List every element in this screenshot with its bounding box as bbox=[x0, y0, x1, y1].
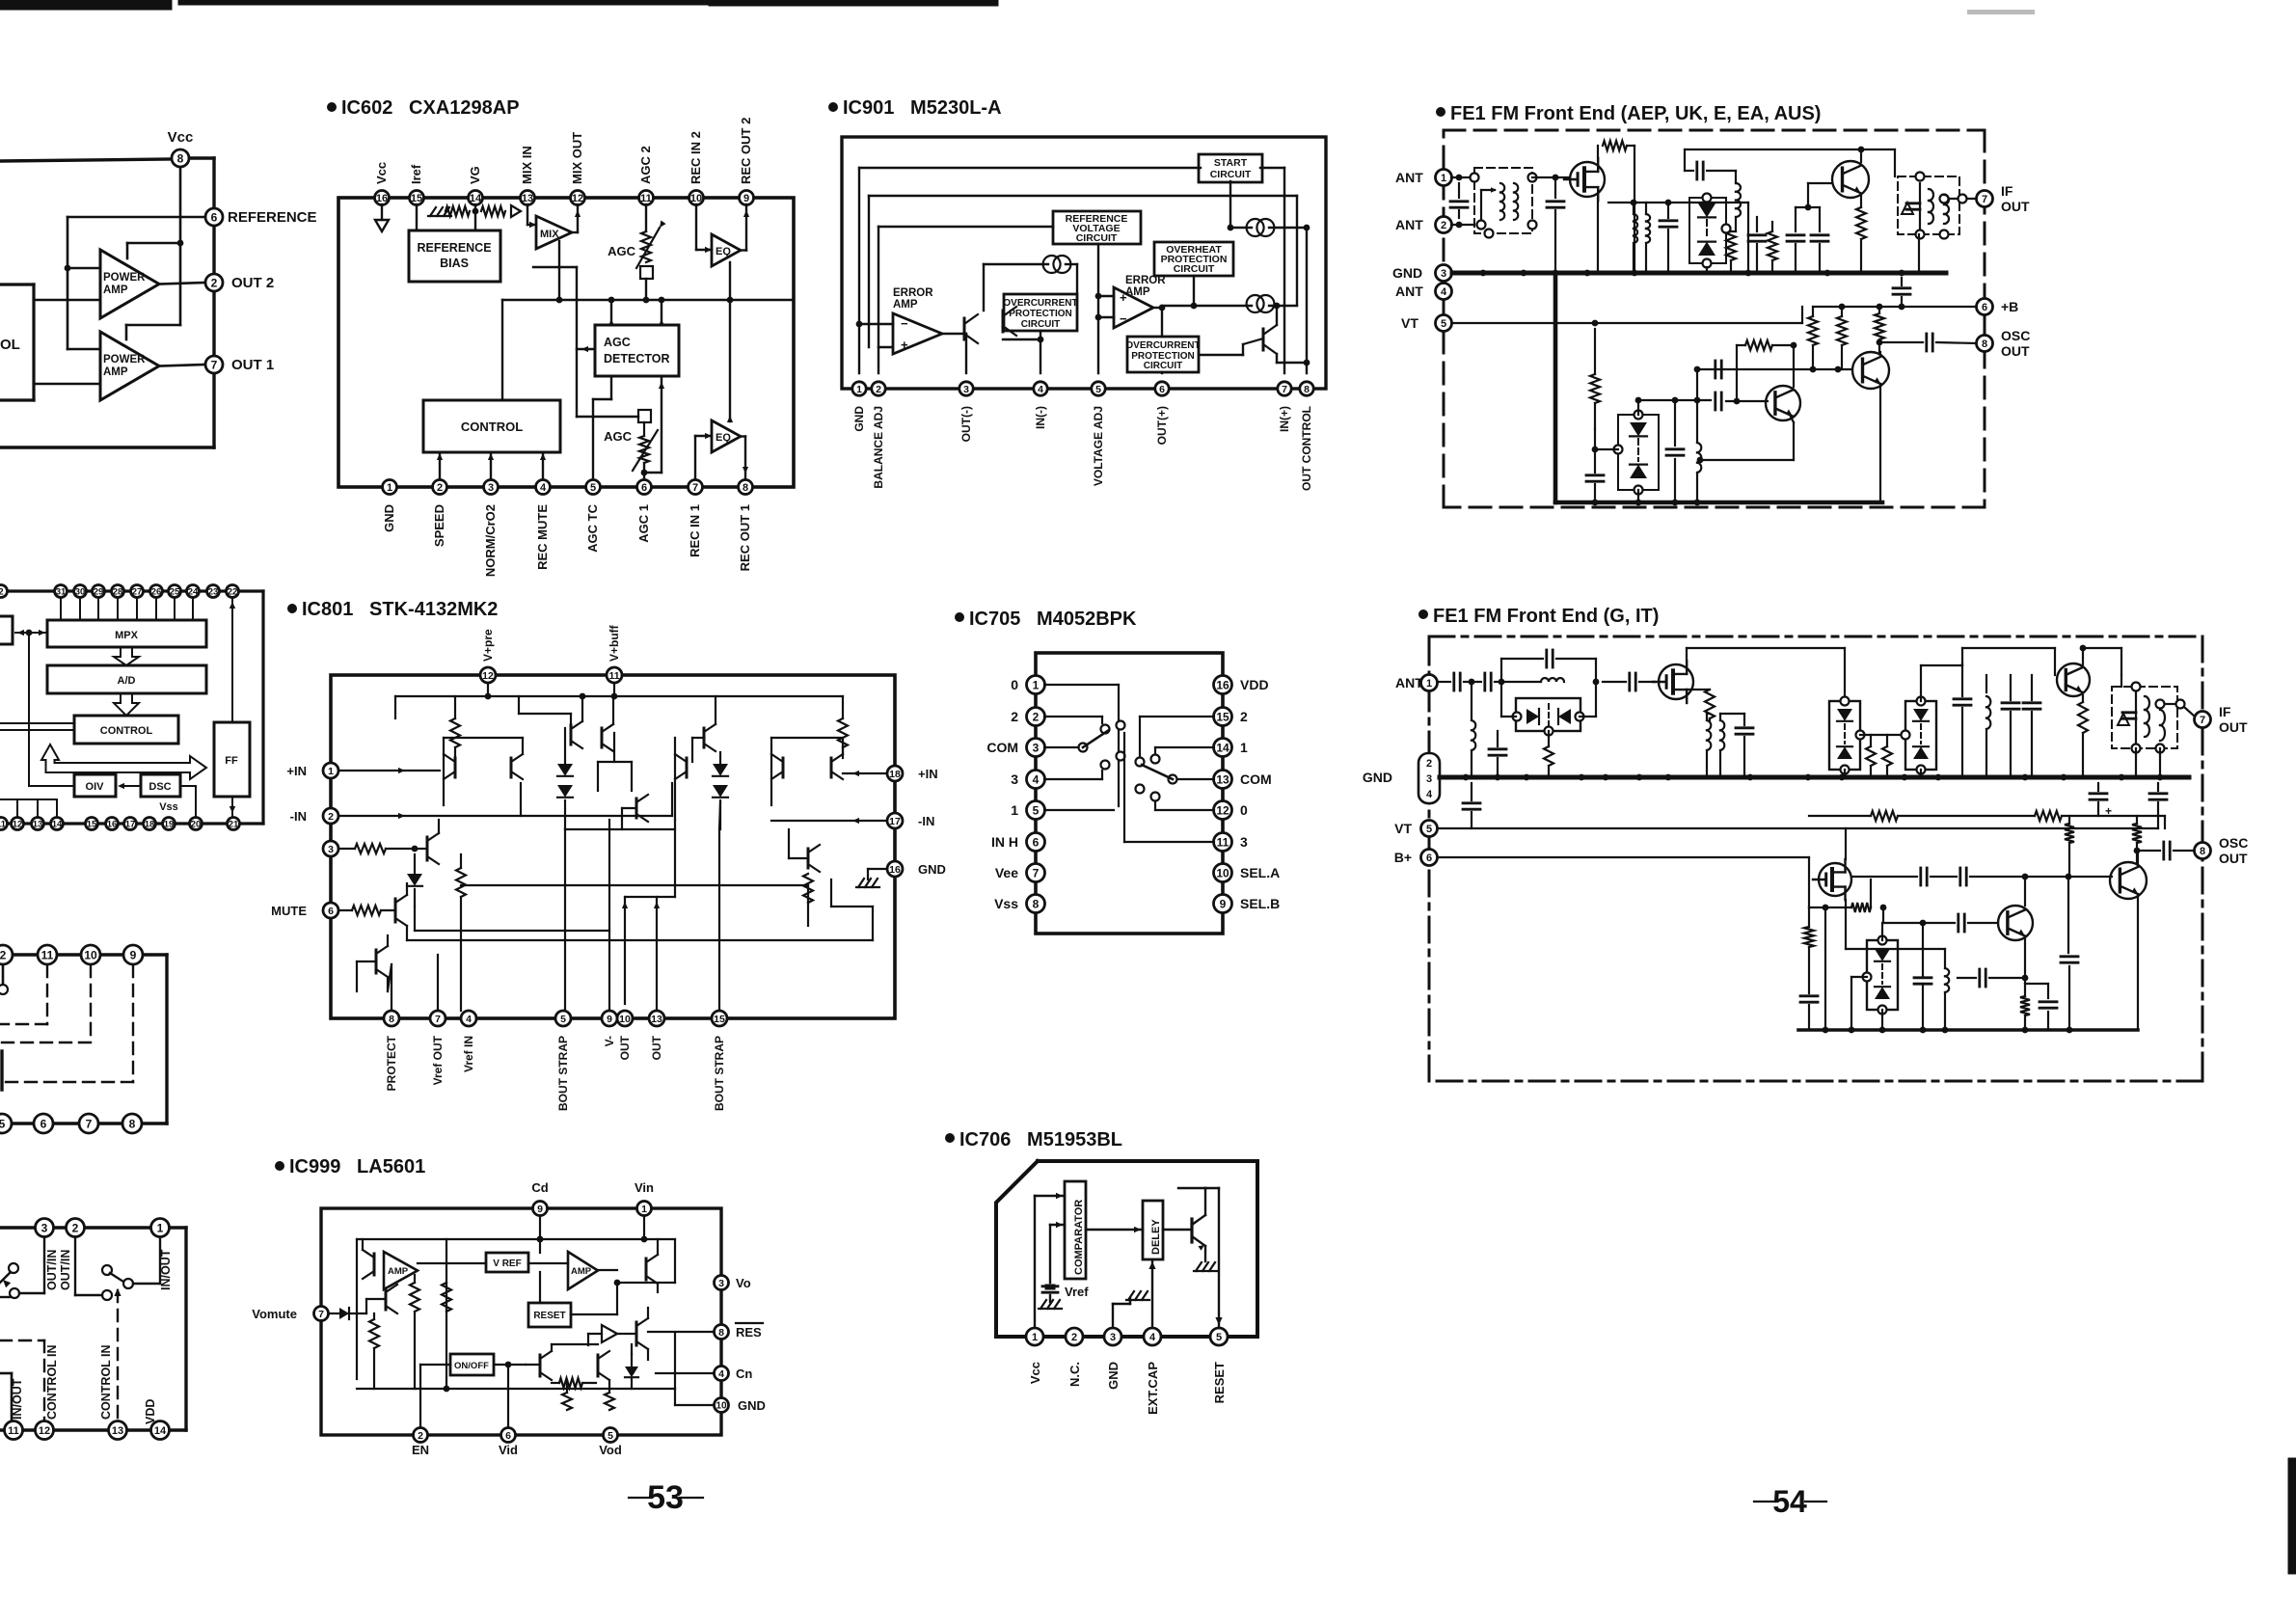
svg-text:SEL.B: SEL.B bbox=[1240, 896, 1280, 911]
IC801 pin 4 Vref IN bbox=[461, 1011, 476, 1072]
svg-text:RESET: RESET bbox=[1212, 1362, 1227, 1403]
svg-text:6: 6 bbox=[41, 1117, 47, 1130]
svg-text:EN: EN bbox=[412, 1443, 429, 1457]
svg-text:OUT: OUT bbox=[2219, 719, 2248, 735]
svg-text:7: 7 bbox=[1982, 194, 1987, 205]
IC801 outline bbox=[331, 675, 895, 1018]
svg-text:ANT: ANT bbox=[1395, 170, 1423, 185]
IC801 mid structure bbox=[598, 696, 716, 829]
IC901 reference voltage circuit block bbox=[1053, 211, 1141, 244]
svg-text:19: 19 bbox=[164, 819, 175, 829]
IC706 comparator block bbox=[1065, 1181, 1086, 1279]
FE1 AEP if transformer internals bbox=[1906, 183, 1949, 230]
IC602 pin 15 Iref bbox=[409, 164, 424, 204]
FE1 AEP antenna transformer coils bbox=[1481, 177, 1518, 220]
svg-text:BOUT STRAP: BOUT STRAP bbox=[556, 1036, 570, 1111]
svg-text:11: 11 bbox=[1217, 835, 1229, 849]
svg-text:10: 10 bbox=[716, 1401, 727, 1412]
svg-text:16: 16 bbox=[889, 864, 901, 876]
FE1 GIT fet drain line bbox=[1687, 648, 1845, 701]
FE1 AEP pin 6 +B bbox=[1977, 299, 2019, 315]
IC901 M5230L-A title bbox=[828, 97, 1002, 119]
svg-text:8: 8 bbox=[129, 1117, 136, 1130]
svg-text:IF: IF bbox=[2001, 183, 2013, 199]
IC901 wire rail2 bbox=[869, 196, 1297, 347]
svg-text:8: 8 bbox=[718, 1327, 724, 1339]
IC602 pin 10 REC IN 2 bbox=[689, 131, 704, 204]
IC901 pin 7 IN(+) bbox=[1278, 382, 1291, 432]
block B wire DSC to OIV bbox=[118, 783, 141, 789]
svg-text:CONTROL IN: CONTROL IN bbox=[45, 1344, 59, 1420]
block B pin 30 bbox=[74, 585, 87, 598]
svg-text:54: 54 bbox=[1772, 1484, 1807, 1519]
svg-text:0: 0 bbox=[1240, 802, 1248, 818]
svg-text:B+: B+ bbox=[1394, 850, 1412, 865]
IC602 wire mix out to pin12 bbox=[572, 204, 581, 232]
svg-text:20: 20 bbox=[191, 819, 202, 829]
svg-text:1: 1 bbox=[1033, 678, 1040, 691]
svg-text:AGC TC: AGC TC bbox=[585, 503, 600, 552]
FE1 GIT cap 4 bbox=[2023, 675, 2040, 777]
svg-text:2: 2 bbox=[0, 586, 4, 597]
power amp 2 bbox=[100, 332, 159, 400]
block B wire left bus bbox=[26, 630, 74, 786]
FE1 GIT left caps to gnd bbox=[1463, 731, 1506, 828]
IC999 pin 4 Cn bbox=[715, 1367, 753, 1382]
IC705 switch right wires bbox=[1119, 717, 1214, 842]
FE1 AEP mid cap1 bbox=[1660, 203, 1677, 273]
IC999 cn wire bbox=[656, 1372, 714, 1374]
FE1 GIT osc coil lower bbox=[1846, 949, 1949, 1030]
svg-text:OUT: OUT bbox=[2219, 851, 2248, 866]
block B pin 23 bbox=[207, 585, 220, 598]
block C dashed wire pin9 bbox=[0, 965, 133, 1082]
block B double arrow left bbox=[15, 630, 47, 636]
IC801 pin 13 OUT bbox=[649, 1011, 664, 1060]
IC901 pin 5 VOLTAGE ADJ bbox=[1092, 382, 1105, 486]
svg-text:POWER: POWER bbox=[103, 272, 146, 284]
FE1 GIT osc out cap bbox=[2137, 842, 2194, 859]
IC999 on/off block bbox=[450, 1354, 494, 1375]
FE1 AEP pin 2 ANT bbox=[1395, 217, 1452, 233]
IC801 left diff pair bbox=[444, 738, 523, 805]
IC801 STK-4132MK2 title bbox=[287, 599, 498, 620]
IC999 pin 2 EN bbox=[412, 1428, 429, 1458]
FE1 GIT cap right of bus bbox=[2136, 748, 2160, 777]
FE1 GIT osc fet feedback resistor bbox=[1809, 880, 1871, 1030]
FE1 GIT fet source resistor bbox=[1687, 690, 1715, 720]
svg-text:12: 12 bbox=[13, 819, 23, 829]
svg-text:1: 1 bbox=[157, 1221, 164, 1234]
block B pin 17 bbox=[124, 818, 137, 830]
FE1 AEP input cap bbox=[1450, 175, 1474, 229]
IC602 wire pin13 to mix bbox=[527, 204, 536, 228]
svg-text:GND: GND bbox=[1106, 1362, 1121, 1390]
IC901 transistor pair left bbox=[964, 307, 1016, 343]
svg-text:29: 29 bbox=[94, 586, 104, 597]
svg-text:9: 9 bbox=[1220, 897, 1227, 910]
svg-text:Vee: Vee bbox=[995, 865, 1018, 880]
IC706 pin 2 NC bbox=[1066, 1328, 1083, 1387]
IC705 outline bbox=[1036, 653, 1223, 934]
block D IN/OUT label pin11 bbox=[11, 1378, 24, 1420]
svg-text:15: 15 bbox=[1216, 710, 1229, 723]
IC801 gnd symbol bbox=[856, 869, 887, 887]
svg-text:IN(-): IN(-) bbox=[1034, 406, 1047, 429]
FE1 GIT varactor box 3 bbox=[1851, 923, 1898, 1030]
FE1 GIT osc t3 base cap bbox=[1958, 969, 2028, 987]
IC801 pin 7 Vref OUT bbox=[430, 1011, 446, 1085]
FE1 AEP cap right pair bbox=[1787, 207, 1828, 273]
IC801 mid top rail bbox=[395, 696, 523, 738]
FE1 GIT series cap to fet bbox=[1603, 673, 1655, 690]
IC602 resistor network at pin 14 bbox=[428, 204, 521, 230]
scan artifact smudge top right bbox=[1967, 10, 2035, 14]
IC901 wire out control pin8 bbox=[1304, 228, 1310, 373]
IC999 mid transistors bbox=[526, 1344, 609, 1388]
svg-text:−: − bbox=[1120, 311, 1127, 326]
IC801 right diff pair bbox=[771, 738, 843, 805]
svg-text:AMP: AMP bbox=[571, 1266, 592, 1277]
svg-text:REC MUTE: REC MUTE bbox=[535, 504, 550, 570]
IC706 wire pin3 gnd bbox=[1113, 1291, 1149, 1329]
svg-text:8: 8 bbox=[1304, 384, 1310, 395]
FE1 GIT mid resistors bbox=[1860, 735, 1905, 777]
svg-text:13: 13 bbox=[112, 1425, 123, 1437]
IC901 wire voltage adj pin5 bbox=[1095, 244, 1114, 373]
block D partial box bottom left bbox=[0, 1373, 12, 1420]
block D pin 2 bbox=[67, 1219, 85, 1237]
svg-text:REFERENCE: REFERENCE bbox=[417, 241, 491, 255]
svg-text:8: 8 bbox=[1033, 897, 1040, 910]
IC602 pin 7 REC IN 1 bbox=[688, 480, 703, 557]
svg-text:4: 4 bbox=[1033, 772, 1040, 786]
block D dashed stub left bbox=[0, 1296, 10, 1298]
svg-text:16: 16 bbox=[1216, 678, 1229, 691]
IC801 pin 3 bbox=[323, 841, 338, 856]
FE1 GIT osc fet bbox=[1813, 828, 1851, 949]
svg-text:11: 11 bbox=[608, 670, 619, 682]
FE1 AEP fet source to gnd bbox=[1597, 198, 1599, 273]
IC602 pin 8 REC OUT 1 bbox=[738, 480, 753, 572]
IC705 pin 4 3 bbox=[1011, 771, 1044, 789]
IC901 wire error amp left inputs bbox=[856, 321, 893, 347]
IC999 pin 6 Vid bbox=[499, 1428, 518, 1458]
svg-text:OIV: OIV bbox=[86, 781, 105, 793]
pin 2 OUT 2 bbox=[205, 274, 274, 291]
IC706 transistor bbox=[1192, 1188, 1205, 1251]
svg-text:6: 6 bbox=[1426, 853, 1432, 864]
FE1 GIT emitter resistor cap bbox=[2020, 984, 2057, 1030]
IC706 transistor emitter gnd bbox=[1194, 1246, 1217, 1271]
FE1 FM Front End (G, IT) title bbox=[1418, 606, 1659, 627]
FE1 GIT bottom bus bbox=[1798, 1027, 2138, 1034]
svg-text:+IN: +IN bbox=[286, 764, 307, 778]
FE1 GIT balun resistor bbox=[1544, 731, 1553, 777]
svg-text:COM: COM bbox=[986, 740, 1018, 755]
svg-text:18: 18 bbox=[889, 769, 901, 780]
IC801 protect transistor bbox=[357, 910, 388, 991]
block C switch contact below pin12 bbox=[0, 965, 8, 994]
svg-text:REC IN 2: REC IN 2 bbox=[689, 131, 703, 184]
IC901 overheat protection circuit block bbox=[1154, 242, 1233, 276]
block B pin 18 bbox=[144, 818, 156, 830]
block B pin 22 bbox=[227, 585, 239, 598]
pin 8 Vcc bbox=[168, 129, 194, 167]
IC999 vomute diode bbox=[329, 1308, 366, 1319]
svg-text:REFERENCE: REFERENCE bbox=[228, 209, 317, 226]
svg-text:CIRCUIT: CIRCUIT bbox=[1021, 319, 1061, 330]
IC901 start circuit block bbox=[1199, 154, 1262, 182]
block B MPX block bbox=[47, 620, 206, 647]
IC705 pin 11 3 bbox=[1214, 833, 1249, 852]
FE1 GIT balun diode box bbox=[1501, 682, 1596, 736]
wire control to amp2 bbox=[34, 383, 100, 386]
wire amp1 output to pin 2 bbox=[159, 283, 205, 284]
svg-text:FF: FF bbox=[225, 755, 238, 767]
svg-text:CONTROL IN: CONTROL IN bbox=[99, 1344, 113, 1420]
svg-text:26: 26 bbox=[151, 586, 162, 597]
FE1 AEP pin 5 VT bbox=[1401, 315, 1452, 332]
svg-text:1: 1 bbox=[1011, 802, 1018, 818]
svg-text:MUTE: MUTE bbox=[271, 904, 307, 918]
svg-text:IN H: IN H bbox=[991, 834, 1018, 850]
svg-text:Vcc: Vcc bbox=[374, 162, 389, 184]
FE1 AEP ground bus bbox=[1452, 270, 1946, 277]
svg-text:IC801 STK-4132MK2: IC801 STK-4132MK2 bbox=[302, 599, 498, 620]
svg-text:GND: GND bbox=[852, 406, 866, 432]
IC706 deley block bbox=[1143, 1201, 1163, 1259]
svg-text:14: 14 bbox=[154, 1425, 167, 1437]
IC999 inner top rail bbox=[357, 1236, 675, 1379]
IC801 diode pair left dark bbox=[557, 728, 573, 829]
IC801 mute bus bbox=[407, 880, 873, 940]
svg-text:+B: +B bbox=[2001, 299, 2018, 314]
block B pin 20 bbox=[190, 818, 203, 830]
FE1 AEP varactor1 bottom wire bbox=[1707, 203, 1748, 273]
svg-text:10: 10 bbox=[84, 948, 97, 961]
IC999 pin 10 GND bbox=[715, 1398, 766, 1414]
IC801 wire pin7 vref out bbox=[437, 955, 439, 1011]
scan artifact top bar bbox=[0, 0, 998, 10]
svg-text:6: 6 bbox=[1033, 835, 1040, 849]
IC706 outline bbox=[996, 1161, 1257, 1337]
IC602 pin 3 NORM/CrO2 bbox=[483, 480, 499, 578]
svg-text:3: 3 bbox=[1110, 1332, 1116, 1343]
FE1 AEP transistor emitter resistor bbox=[1856, 195, 1866, 273]
svg-text:AGC 1: AGC 1 bbox=[636, 504, 651, 543]
IC901 error amp right bbox=[1114, 275, 1166, 328]
block C outline bbox=[0, 955, 167, 1123]
IC901 outline bbox=[842, 137, 1326, 389]
svg-text:9: 9 bbox=[130, 948, 137, 961]
svg-text:Vo: Vo bbox=[736, 1276, 751, 1290]
svg-text:5: 5 bbox=[1216, 1332, 1222, 1343]
IC602 eq amp upper bbox=[712, 234, 741, 266]
svg-text:IC999 LA5601: IC999 LA5601 bbox=[289, 1156, 425, 1177]
IC602 outline bbox=[338, 198, 794, 487]
IC801 pin3 resistor bbox=[338, 820, 439, 864]
svg-text:FE1 FM Front End (AEP, UK, E,: FE1 FM Front End (AEP, UK, E, EA, AUS) bbox=[1450, 103, 1821, 124]
FE1 AEP gnd right caps bbox=[1893, 234, 1919, 307]
block C pin 6 bbox=[34, 1114, 53, 1133]
svg-text:8: 8 bbox=[177, 151, 184, 165]
FE1 GIT buffer transistor bbox=[2110, 851, 2147, 1030]
IC801 pin 16 GND bbox=[887, 861, 946, 877]
IC602 wire detector bottom bbox=[644, 376, 664, 473]
IC602 internal bus bbox=[502, 297, 794, 400]
block B hollow arrow MPX to A/D bbox=[114, 647, 139, 665]
IC801 diode pair right dark bbox=[713, 752, 728, 829]
svg-text:-IN: -IN bbox=[918, 814, 934, 828]
FE1 AEP pin 1 ANT bbox=[1395, 170, 1452, 186]
block B pin 14 bbox=[51, 818, 64, 830]
IC801 pin 17 -IN bbox=[887, 813, 934, 828]
svg-text:ERROR: ERROR bbox=[893, 287, 933, 299]
IC901 wire top rail bbox=[859, 168, 1284, 373]
FE1 AEP wire trans to pin7 bbox=[1949, 195, 1976, 203]
FE1 GIT pin 8 OSC OUT bbox=[2195, 835, 2249, 866]
svg-text:+: + bbox=[1120, 290, 1127, 305]
svg-text:2: 2 bbox=[1071, 1332, 1077, 1343]
svg-text:AMP: AMP bbox=[388, 1266, 409, 1277]
svg-text:Vcc: Vcc bbox=[1028, 1362, 1042, 1384]
IC999 wire pin9 cd bbox=[537, 1216, 544, 1303]
IC801 top rail bbox=[395, 683, 843, 699]
svg-text:Vin: Vin bbox=[635, 1180, 654, 1195]
svg-text:1: 1 bbox=[1441, 173, 1446, 184]
IC602 wire detector top right bbox=[659, 297, 665, 326]
svg-text:15: 15 bbox=[714, 1014, 725, 1025]
svg-text:REC OUT 2: REC OUT 2 bbox=[739, 118, 753, 184]
svg-text:AMP: AMP bbox=[103, 366, 128, 378]
scan artifact right edge bbox=[2288, 1458, 2296, 1574]
block B left pin stubs bbox=[0, 799, 57, 816]
IC706 pin 3 GND bbox=[1104, 1328, 1121, 1390]
IC706 vref cap bbox=[1039, 1285, 1089, 1309]
FE1 GIT if out dashed box bbox=[2112, 683, 2177, 753]
svg-text:7: 7 bbox=[86, 1117, 93, 1130]
svg-text:3: 3 bbox=[718, 1278, 724, 1289]
svg-text:4: 4 bbox=[1426, 789, 1433, 800]
svg-text:5: 5 bbox=[608, 1430, 613, 1442]
IC602 AGC rheostat lower bbox=[604, 410, 658, 479]
svg-text:CIRCUIT: CIRCUIT bbox=[1144, 361, 1183, 371]
svg-text:SEL.A: SEL.A bbox=[1240, 865, 1280, 880]
svg-text:N.C.: N.C. bbox=[1067, 1362, 1082, 1387]
FE1 GIT dash-dot border bbox=[1429, 636, 2202, 1081]
IC602 wire pin5 AGC TC bbox=[593, 376, 611, 479]
block D switch mid bbox=[75, 1237, 160, 1300]
FE1 GIT mid cap down bbox=[2061, 877, 2078, 1030]
svg-text:CIRCUIT: CIRCUIT bbox=[1076, 232, 1118, 244]
FE1 GIT vt wires2 bbox=[1438, 816, 2165, 828]
IC602 AGC rheostat upper bbox=[608, 204, 665, 300]
block B OIV block bbox=[74, 774, 116, 797]
FE1 GIT if transformer internals bbox=[2122, 692, 2165, 743]
IC801 wire pin2 to diff bbox=[338, 783, 672, 819]
svg-text:COMPARATOR: COMPARATOR bbox=[1073, 1200, 1085, 1275]
svg-text:Vref OUT: Vref OUT bbox=[431, 1035, 445, 1085]
svg-text:FE1 FM Front End (G, IT): FE1 FM Front End (G, IT) bbox=[1433, 606, 1659, 627]
IC602 pin 11 AGC 2 bbox=[638, 146, 654, 204]
FE1 AEP osc base line bbox=[1715, 340, 1797, 410]
svg-text:1: 1 bbox=[856, 384, 862, 395]
svg-text:Cn: Cn bbox=[736, 1367, 752, 1381]
IC999 wire pin1 vin bbox=[643, 1216, 645, 1239]
svg-text:Vref IN: Vref IN bbox=[462, 1036, 475, 1072]
block B pin 16 bbox=[106, 818, 119, 830]
FE1 GIT pin 7 IF OUT bbox=[2195, 704, 2249, 735]
svg-text:OUT: OUT bbox=[2001, 343, 2030, 359]
svg-text:VT: VT bbox=[1394, 821, 1412, 836]
FE1 AEP varactor2 wires bbox=[1586, 397, 1641, 506]
svg-text:16: 16 bbox=[107, 819, 118, 829]
svg-text:5: 5 bbox=[590, 482, 596, 494]
svg-text:12: 12 bbox=[572, 193, 583, 204]
FE1 GIT ground bus bbox=[1440, 774, 2189, 781]
svg-text:3: 3 bbox=[1240, 834, 1248, 850]
IC705 switch right contacts bbox=[1136, 755, 1177, 801]
FE1 AEP coil mid bbox=[1731, 183, 1741, 231]
IC999 amp right bbox=[568, 1252, 598, 1289]
block D outline bbox=[0, 1228, 186, 1430]
IC705 pin 5 1 bbox=[1011, 801, 1044, 820]
wire amp2 output to pin 7 bbox=[159, 365, 205, 366]
IC901 wire transistor right connect bbox=[1199, 303, 1307, 363]
block D pin 12 bbox=[36, 1421, 54, 1440]
IC999 pin 3 Vo bbox=[715, 1276, 751, 1291]
block B pin 28 bbox=[112, 585, 124, 598]
IC999 res triangle bbox=[588, 1308, 648, 1360]
svg-text:GND: GND bbox=[382, 504, 396, 532]
svg-text:13: 13 bbox=[33, 819, 43, 829]
svg-text:2: 2 bbox=[211, 276, 218, 289]
IC705 pin 12 0 bbox=[1214, 801, 1249, 820]
block C pin 8 bbox=[122, 1114, 142, 1133]
IC901 pin 8 OUT CONTROL bbox=[1300, 382, 1313, 491]
svg-text:GND: GND bbox=[918, 862, 946, 877]
svg-text:AGC: AGC bbox=[604, 336, 631, 349]
IC901 wire in- pin4 bbox=[1003, 331, 1043, 373]
FE1 GIT osc base row bbox=[1880, 905, 1998, 932]
svg-text:OSC: OSC bbox=[2219, 835, 2248, 851]
svg-text:VT: VT bbox=[1401, 315, 1418, 331]
block D dashed control wire left bbox=[0, 1340, 44, 1420]
FE1 AEP osc tank coil bbox=[1638, 397, 1711, 506]
IC705 pin 7 Vee bbox=[995, 864, 1045, 882]
svg-text:13: 13 bbox=[522, 193, 533, 204]
IC801 pin 1 +IN bbox=[286, 763, 338, 778]
FE1 GIT cap 3 bbox=[2002, 675, 2019, 777]
svg-text:OUT: OUT bbox=[650, 1035, 663, 1060]
FE1 AEP bias resistor 1 bbox=[1808, 307, 1818, 372]
FE1 GIT right vertical to bus bbox=[2120, 675, 2122, 687]
IC901 pin 3 OUT(-) bbox=[959, 382, 973, 443]
FE1 AEP top rail bbox=[1608, 200, 1748, 206]
IC999 pin 1 Vin bbox=[635, 1180, 654, 1216]
svg-text:AMP: AMP bbox=[893, 299, 918, 311]
IC602 wire pin10 to eq upper bbox=[696, 204, 712, 253]
IC901 overcurrent protection circuit block right bbox=[1125, 337, 1200, 372]
svg-text:6: 6 bbox=[1159, 384, 1165, 395]
svg-text:Iref: Iref bbox=[409, 164, 423, 184]
svg-text:Vid: Vid bbox=[499, 1443, 518, 1457]
svg-text:3: 3 bbox=[1426, 773, 1432, 785]
IC block outline (partial, cut at left edge) bbox=[0, 158, 214, 447]
svg-text:8: 8 bbox=[2200, 846, 2205, 857]
svg-text:2: 2 bbox=[1240, 709, 1248, 724]
